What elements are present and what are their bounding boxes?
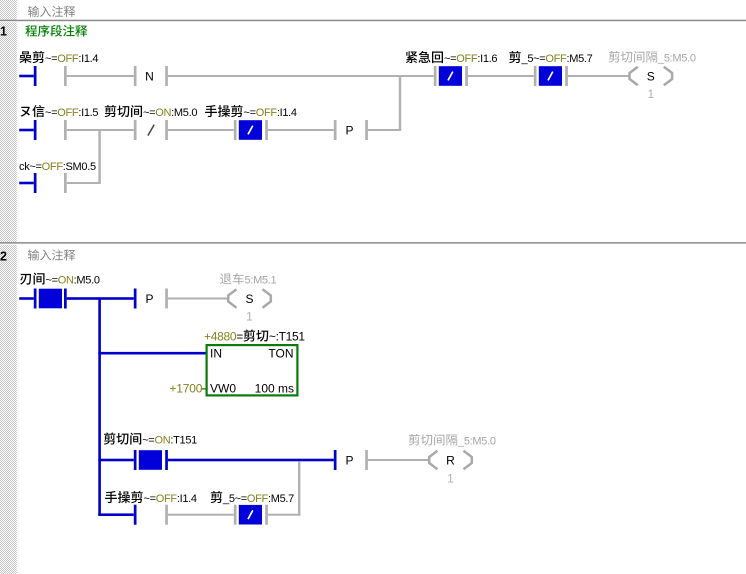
label timer +4880=剪切~:T151 (204, 329, 305, 343)
svg-text:=: = (236, 330, 243, 344)
svg-text:_5:M5.0: _5:M5.0 (457, 436, 496, 448)
wire net2 contact to P blue (67, 297, 134, 300)
contact 喿剪 I1.4 right bar (64, 66, 67, 86)
svg-text:+4880: +4880 (204, 330, 237, 344)
svg-text:1: 1 (447, 472, 454, 486)
wire branch to bottom contact blue (98, 513, 134, 516)
svg-text:~=: ~= (444, 53, 456, 65)
left margin gutter (0, 0, 17, 574)
label coil 剪切间隔_5:M5.0 (609, 51, 696, 65)
network 1 number (0, 25, 7, 39)
svg-text:OFF: OFF (42, 161, 64, 173)
svg-text::I1.4: :I1.4 (277, 107, 297, 119)
wire branch to T151 contact blue (98, 459, 134, 462)
svg-text::M5.7: :M5.7 (268, 493, 294, 505)
wire T151 to P blue (168, 459, 334, 462)
svg-text:OFF: OFF (247, 493, 269, 505)
svg-text:5:M5.1: 5:M5.1 (245, 275, 277, 287)
svg-text::M5.0: :M5.0 (171, 107, 197, 119)
network 2 number (0, 250, 7, 264)
svg-text:OFF: OFF (57, 107, 79, 119)
svg-text:S: S (647, 70, 655, 84)
contact NO 手操剪 I1.4 bottom open (134, 505, 168, 525)
network 1 title 程序段注释 (25, 25, 87, 37)
svg-text:100 ms: 100 ms (255, 382, 294, 396)
coil S set M5.1 (228, 289, 271, 307)
network 2 separator line (0, 242, 746, 245)
svg-text:ON: ON (155, 107, 171, 119)
svg-text:_5~=: _5~= (222, 493, 247, 505)
wire P to R coil (368, 459, 429, 461)
wire bottom col2-col3 (168, 514, 234, 516)
timer box TON T151 (207, 345, 298, 395)
network 2 comment text 输入注释 (28, 249, 75, 260)
wire rung2 col1-col2 (67, 129, 134, 131)
wire into timer IN blue (98, 352, 205, 355)
label contact I1.4 喿剪~=OFF:I1.4 (19, 51, 98, 65)
label coil 退车5:M5.1 (220, 273, 276, 287)
svg-text:OFF: OFF (256, 107, 278, 119)
svg-text:P: P (345, 454, 353, 468)
branch vertical rung2-rung3 (98, 130, 100, 183)
riser vertical bottom to T151 rung (298, 461, 300, 516)
wire rung2 col2-col3 (168, 129, 234, 131)
contact NC 剪_5 M5.7 bottom closed unpowered (234, 505, 268, 525)
svg-text::I1.5: :I1.5 (78, 107, 98, 119)
svg-text:TON: TON (268, 347, 293, 361)
svg-text:~:T151: ~:T151 (269, 330, 306, 344)
wire rung3 to branch (67, 182, 101, 184)
coil S operand count 1 (647, 87, 654, 101)
svg-text:~=: ~= (45, 107, 57, 119)
svg-text:OFF: OFF (545, 53, 567, 65)
coil R operand count 1 (447, 472, 454, 486)
label contact I1.4 手操剪~=OFF:I1.4 bottom (105, 491, 197, 505)
label contact M5.7 剪_5~=OFF:M5.7 (509, 51, 593, 65)
svg-text:~=: ~= (143, 107, 155, 119)
svg-text::M5.0: :M5.0 (74, 275, 100, 287)
svg-text::M5.7: :M5.7 (566, 53, 592, 65)
contact ck SM0.5 right bar (64, 173, 67, 193)
label contact SM0.5 ck~=OFF:SM0.5 (19, 161, 96, 173)
svg-text:1: 1 (246, 310, 253, 324)
label contact I1.4 手操剪~=OFF:I1.4 (205, 105, 297, 119)
left rail stub rung 1 (19, 66, 36, 86)
svg-text:~=: ~= (142, 435, 154, 447)
wire rung2 col3-col4 (268, 129, 334, 131)
svg-text:VW0: VW0 (210, 382, 236, 396)
label contact I1.5 ヌ信~=OFF:I1.5 (21, 105, 99, 119)
svg-text:OFF: OFF (456, 53, 478, 65)
wire rung1 N to I1.6 contact (168, 75, 434, 77)
contact NO 刃间 M5.0 powered closed (39, 289, 67, 309)
contact NC 剪_5 M5.7 powered (534, 66, 568, 86)
junction vertical net1 x400 (399, 76, 401, 130)
wire rung1 M5.7 to coil (568, 75, 630, 77)
svg-text:~=: ~= (45, 53, 57, 65)
wire rung1 I1.6 to M5.7 (468, 75, 534, 77)
svg-text:P: P (345, 124, 353, 138)
contact P positive edge net2 (134, 289, 168, 309)
coil S set M5.0 (630, 67, 673, 85)
svg-text:OFF: OFF (57, 53, 79, 65)
svg-text:_5:M5.0: _5:M5.0 (657, 53, 696, 65)
label coil 剪切间隔_5:M5.0 reset (409, 434, 496, 448)
wire rung1 col1-col2 (67, 75, 134, 77)
svg-text:2: 2 (0, 250, 7, 264)
svg-text:ck~=: ck~= (19, 161, 42, 173)
contact NC 手操剪 I1.4 powered (234, 120, 268, 140)
svg-text:~=: ~= (244, 107, 256, 119)
svg-text:ON: ON (154, 435, 170, 447)
svg-text:ON: ON (58, 275, 74, 287)
contact NC 剪切间 M5.0 open (134, 120, 168, 140)
svg-text::SM0.5: :SM0.5 (63, 161, 96, 173)
svg-text::I1.4: :I1.4 (78, 53, 98, 65)
wire rung2 P to junction (368, 129, 401, 131)
svg-text:OFF: OFF (156, 493, 178, 505)
left rail stub net2 (19, 289, 36, 309)
svg-text::I1.4: :I1.4 (177, 493, 197, 505)
svg-text:IN: IN (210, 347, 222, 361)
label contact T151 剪切间~=ON:T151 (104, 432, 197, 446)
network 1 separator line (0, 20, 746, 23)
contact NC 紧急回 I1.6 powered (434, 66, 468, 86)
left rail stub rung 2 (19, 120, 36, 140)
label contact M5.0 剪切间~=ON:M5.0 (105, 105, 198, 119)
branch vertical blue net2 (98, 299, 101, 517)
svg-text:R: R (446, 454, 455, 468)
svg-text:N: N (145, 70, 154, 84)
contact ヌ信 I1.5 right bar (64, 120, 67, 140)
contact P positive edge (334, 120, 368, 140)
label contact I1.6 紧急回~=OFF:I1.6 (406, 51, 498, 65)
svg-text::I1.6: :I1.6 (477, 53, 497, 65)
network 1 comment text 输入注释 (28, 6, 75, 17)
svg-text::T151: :T151 (170, 435, 197, 447)
svg-text:P: P (145, 292, 153, 306)
contact P positive edge T151 rung (334, 450, 368, 470)
svg-text:_5~=: _5~= (521, 53, 546, 65)
svg-text:~=: ~= (144, 493, 156, 505)
label contact M5.7 剪_5~=OFF:M5.7 bottom (211, 491, 295, 505)
svg-text:+1700: +1700 (170, 382, 203, 396)
left rail stub rung 3 (19, 173, 36, 193)
wire bottom col3 to riser (268, 514, 301, 516)
wire net2 P to S coil (168, 298, 228, 300)
contact N negative edge (134, 66, 168, 86)
label contact M5.0 刃间~=ON:M5.0 (20, 273, 100, 287)
svg-text:1: 1 (0, 25, 7, 39)
coil S M5.1 operand count 1 (246, 310, 253, 324)
svg-text:1: 1 (647, 87, 654, 101)
coil R reset M5.0 (429, 451, 472, 469)
svg-text:S: S (245, 292, 253, 306)
timer preset value +1700 (170, 382, 206, 396)
svg-text:~=: ~= (46, 275, 58, 287)
contact NO 剪切间 T151 powered closed (134, 450, 168, 470)
